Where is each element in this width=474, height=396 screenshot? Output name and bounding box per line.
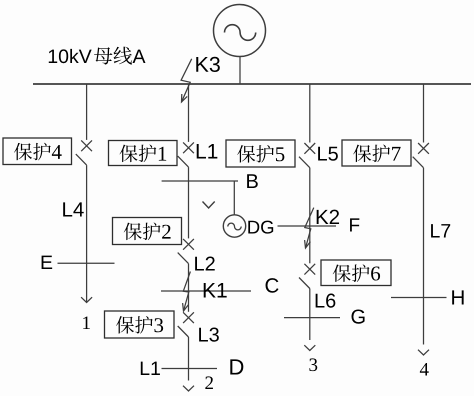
label load 4 (420, 363, 429, 376)
label L4 (63, 202, 84, 216)
fault K1 (183, 272, 191, 312)
node E (42, 256, 53, 269)
wire line L1 section (188, 167, 190, 238)
node H (452, 290, 463, 304)
circuit breaker QF6 (299, 264, 315, 289)
wire bus to breaker QF5 (309, 84, 311, 143)
label L6 (316, 294, 336, 308)
load arrow load 4 (418, 350, 429, 355)
wire line L2 section (188, 264, 190, 312)
load arrow load 3 (304, 345, 315, 350)
wire DG output (278, 225, 337, 227)
protection relay box protection 2 (113, 218, 182, 245)
fault K2 (305, 208, 314, 248)
bus 10kV busbar A (33, 83, 471, 85)
label DG (248, 221, 273, 234)
label L7 (431, 224, 450, 237)
label K2 (317, 210, 339, 224)
DG distributed generator (223, 215, 245, 237)
label 10kV bus A (49, 47, 146, 65)
label load 2 (205, 376, 213, 389)
protection relay box protection 3 (105, 311, 175, 338)
label L3 (199, 328, 219, 342)
label K1 (204, 283, 227, 297)
label load 1 (83, 316, 90, 329)
label L1 lower (141, 362, 160, 375)
label L1 (197, 144, 218, 158)
protection relay box protection 7 (342, 140, 411, 166)
label load 3 (309, 358, 317, 371)
wire line L4 (86, 165, 88, 302)
wire bus to breaker QF7 (423, 84, 425, 143)
wire line L3 section (188, 337, 190, 381)
node C (266, 278, 279, 293)
circuit breaker QF1 (178, 142, 194, 167)
node E tap line (58, 262, 115, 264)
node B tap line (162, 180, 238, 182)
wire bus to breaker QF1 (188, 84, 190, 142)
load arrow load 2 (183, 386, 194, 391)
wire DG riser (233, 181, 235, 215)
node G tap line (284, 317, 340, 319)
protection relay box protection 6 (321, 260, 391, 286)
circuit breaker QF5 (299, 143, 315, 168)
label L5 (318, 147, 338, 161)
wire line L7 (423, 168, 425, 345)
check mark (203, 202, 215, 209)
wire bus to breaker QF4 (86, 84, 88, 140)
circuit breaker QF3 (178, 312, 194, 337)
node D (230, 359, 243, 374)
circuit breaker QF7 (413, 143, 429, 168)
circuit breaker QF2 (178, 239, 194, 264)
node C tap line (161, 290, 251, 292)
protection relay box protection 1 (109, 141, 178, 166)
node G (352, 310, 365, 324)
protection relay box protection 4 (3, 138, 72, 165)
AC source generator (214, 5, 266, 57)
wire line L5 section (309, 168, 311, 264)
node B (247, 174, 258, 188)
node H tap line (391, 297, 447, 299)
circuit breaker QF4 (76, 140, 92, 165)
protection relay box protection 5 (226, 140, 295, 167)
load arrow load 1 (81, 297, 92, 302)
label L2 (195, 257, 215, 271)
wire generator lead (239, 57, 241, 84)
node F (350, 218, 359, 231)
label K3 (196, 57, 220, 72)
fault K3 (181, 59, 192, 102)
wire line L6 section (309, 289, 311, 341)
node D tap line (162, 368, 218, 370)
